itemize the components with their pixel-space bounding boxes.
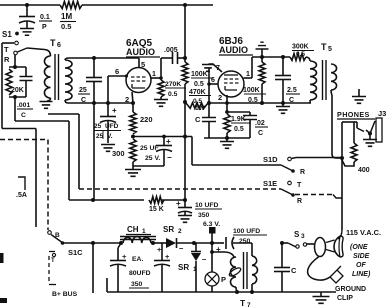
label T7 [240, 298, 251, 308]
jack J3 sleeve [342, 122, 364, 158]
label AUDIO (6BJ6) [219, 45, 253, 55]
wire cathode top bar [227, 111, 250, 113]
ground (pin7) [202, 65, 214, 72]
label 1.9K/0.5 [231, 116, 251, 133]
svg-text:270K: 270K [165, 81, 181, 88]
capacitor .02 C [243, 112, 257, 138]
label 25/C [78, 87, 90, 104]
wire AVC feed [48, 114, 79, 189]
svg-text:T: T [4, 45, 9, 54]
label 100K/0.5 (plate) [243, 87, 266, 104]
resistor 220 [130, 103, 136, 134]
label R (S1D) [300, 169, 305, 176]
svg-text:−: − [167, 153, 172, 162]
label 100UFD/250 [233, 228, 267, 245]
capacitor 25UF 25V (screen) [133, 137, 172, 167]
svg-text:.5A: .5A [16, 192, 27, 199]
transformer T5 secondary [331, 64, 337, 95]
svg-text:2: 2 [178, 228, 182, 235]
switch S1C arm [51, 235, 64, 245]
wire screen-rail to S1D [192, 137, 281, 166]
svg-text:T: T [297, 182, 302, 189]
svg-text:1W: 1W [195, 105, 206, 112]
svg-text:LINE): LINE) [352, 271, 371, 278]
label EA./80UFD/350 [129, 256, 151, 288]
wire B+ bus drop [92, 243, 94, 293]
label B+ BUS [52, 291, 78, 298]
resistor 270K 0.5 [158, 80, 164, 97]
label 0.1/P [39, 14, 52, 31]
svg-text:S: S [294, 230, 300, 239]
capacitor 25 C (grid) [86, 58, 102, 103]
node top-bus junction B [183, 3, 187, 7]
switch S1B arm [18, 48, 28, 52]
transformer T7 secondary [252, 243, 258, 292]
transformer T5 core [323, 60, 327, 100]
resistor 15K (inline) [149, 197, 164, 204]
label .001/C [17, 102, 33, 119]
label R (S1E) [297, 198, 302, 205]
transformer T7 core [244, 252, 248, 289]
switch S1C common [48, 231, 52, 235]
wire cathode bottom rail [204, 136, 250, 140]
wire S1C to B rail [63, 241, 122, 245]
label B (S1C) [55, 232, 60, 239]
svg-text:R: R [4, 55, 10, 64]
svg-text:2.5: 2.5 [287, 87, 297, 94]
label S1B [2, 30, 19, 39]
svg-text:+: + [112, 106, 117, 115]
svg-text:(ONE: (ONE [350, 244, 368, 251]
svg-text:S1C: S1C [68, 248, 83, 257]
mark left edge [0, 253, 7, 303]
plug body oval [315, 238, 326, 257]
svg-text:C: C [258, 130, 263, 137]
label CH1 [126, 225, 151, 235]
wire x94 main drop [93, 103, 95, 200]
label S1D [263, 155, 278, 164]
svg-text:T: T [321, 42, 327, 52]
svg-text:6: 6 [211, 77, 215, 84]
wire 20K bottom bar [9, 95, 26, 99]
capacitor 0.1 P [19, 5, 35, 28]
wire S1D T to jack [292, 158, 343, 159]
svg-text:100K: 100K [191, 71, 208, 78]
ground (270K) [154, 97, 168, 106]
terminal 6.3V [203, 221, 220, 234]
wire S1E out dashed [295, 195, 342, 199]
resistor 300K 0.5 (inline) [290, 54, 310, 61]
node line junction [280, 241, 284, 245]
svg-text:3: 3 [301, 233, 305, 240]
svg-text:B+ BUS: B+ BUS [52, 291, 78, 298]
ground (jack) [363, 134, 377, 146]
svg-text:PHONES: PHONES [337, 110, 370, 119]
switch S1B terminal T [4, 41, 18, 54]
switch S1D throw T [288, 157, 292, 161]
svg-text:25: 25 [94, 123, 102, 130]
capacitor C (grid) [195, 115, 216, 138]
svg-text:R: R [300, 169, 305, 176]
svg-text:.005: .005 [164, 47, 178, 54]
svg-text:+: + [166, 137, 171, 146]
label 2.5/C [286, 87, 300, 104]
switch S1B terminal R [4, 51, 17, 64]
svg-text:400: 400 [358, 167, 370, 174]
svg-text:AUDIO: AUDIO [126, 47, 155, 57]
node top-bus junction A [25, 3, 29, 7]
wire x185 lower [184, 102, 186, 200]
label S3 [294, 230, 305, 240]
label 400 [358, 167, 370, 174]
label SR1 [178, 263, 197, 273]
svg-text:+: + [176, 199, 181, 208]
wire PS bottom rail [107, 278, 336, 292]
plug prongs [326, 240, 335, 252]
node cathode rail A [131, 135, 166, 139]
wire S1B T feed [2, 42, 14, 44]
label PHONES J3 [337, 109, 386, 119]
capacitor 25UFD 25V [100, 103, 117, 143]
svg-text:C: C [21, 112, 26, 119]
tube 6BJ6 envelope [218, 71, 244, 97]
ground (inverted, plate line) [256, 42, 269, 57]
wire plate riser [160, 58, 162, 80]
pin 2 (6AQ5 cathode) [125, 92, 133, 104]
label S1C [68, 248, 83, 257]
label 25UF/25V [140, 145, 160, 162]
svg-text:SR: SR [178, 263, 189, 272]
wire pin6 drop [107, 76, 109, 103]
svg-text:OF: OF [356, 262, 366, 269]
svg-text:.02: .02 [255, 120, 265, 127]
svg-text:0.5: 0.5 [234, 126, 244, 133]
wire 6.3V drop [211, 234, 213, 273]
ground (chassis, bottom) [313, 292, 330, 303]
wire AVC dashed bus [79, 188, 281, 190]
svg-text:.001: .001 [17, 102, 30, 109]
label T5 [321, 42, 332, 53]
ground (6BJ6 cathode) [220, 138, 234, 148]
svg-text:20K: 20K [11, 87, 24, 94]
ground (25UFD) [101, 145, 115, 152]
label .005 [164, 47, 178, 54]
node S1D-T junction [340, 156, 344, 160]
wire T5 sec drop [332, 95, 342, 158]
capacitor 80UFD B [154, 243, 170, 292]
svg-text:1: 1 [152, 71, 156, 78]
wire S1B common to T6 [27, 48, 45, 50]
choke CH1 core [120, 237, 156, 240]
svg-text:C: C [291, 266, 297, 275]
svg-text:0.1: 0.1 [40, 14, 50, 21]
svg-text:100 UFD: 100 UFD [233, 228, 260, 235]
label 100K/0.5 (grid) [191, 71, 213, 88]
tube 6BJ6 plate bar [224, 74, 238, 76]
svg-text:300: 300 [112, 149, 125, 158]
tube 6AQ5 envelope [126, 68, 151, 93]
svg-text:−: − [202, 255, 207, 264]
svg-text:T: T [50, 38, 56, 48]
label 20K [11, 87, 24, 94]
wire B+ top bus [0, 4, 213, 6]
resistor 20K [6, 69, 12, 95]
pin 7 (6BJ6) [209, 64, 223, 72]
label S1E [263, 179, 277, 188]
plug cap 115VAC [334, 236, 343, 257]
svg-text:220: 220 [140, 115, 153, 124]
svg-text:+: + [122, 252, 127, 261]
pin 6 (6AQ5) [108, 67, 128, 78]
svg-text:25 V.: 25 V. [145, 155, 160, 162]
ground (10UFD) [178, 216, 192, 223]
ground (0.1P cap) [20, 29, 34, 36]
svg-text:+: + [165, 252, 170, 261]
wire R to 20K [14, 55, 16, 68]
tube 6AQ5 cathode [132, 84, 145, 88]
svg-text:350: 350 [198, 212, 210, 219]
label T6 [50, 38, 61, 49]
wire 20K top bar [9, 65, 26, 69]
svg-text:T: T [51, 258, 55, 264]
jack J3 plug body [376, 118, 382, 142]
svg-text:0.5: 0.5 [61, 22, 71, 31]
ground (300/25UF) [125, 167, 141, 176]
resistor 400 [342, 122, 357, 166]
svg-text:SR: SR [163, 225, 174, 234]
svg-text:CLIP: CLIP [337, 295, 353, 302]
wire B rail mid [151, 242, 166, 244]
svg-text:6: 6 [115, 67, 119, 76]
tube 6BJ6 grid dashes [224, 79, 239, 83]
wire screen rail [133, 135, 192, 139]
svg-text:80UFD: 80UFD [129, 270, 151, 277]
svg-text:7: 7 [216, 65, 220, 72]
svg-text:300K: 300K [292, 44, 309, 51]
svg-text:1: 1 [246, 71, 250, 78]
svg-text:350: 350 [131, 281, 143, 288]
svg-text:S1E: S1E [263, 179, 277, 188]
svg-text:T: T [240, 298, 246, 308]
svg-text:1M: 1M [61, 12, 72, 21]
wire B+ 15K line [69, 198, 187, 202]
svg-text:0.5: 0.5 [193, 98, 202, 105]
label .02/C [255, 120, 268, 137]
wire T-terminal left drop [2, 43, 36, 227]
wire dashed line feed [0, 140, 48, 231]
wire plate to top [252, 55, 290, 78]
transformer T6 secondary [65, 58, 72, 103]
svg-text:AUDIO: AUDIO [219, 45, 248, 55]
transformer T6 primary [44, 50, 50, 102]
svg-text:0.5: 0.5 [168, 91, 178, 98]
label 10UFD/350 [195, 202, 222, 219]
pin 5 (6AQ5 grid) [139, 58, 145, 69]
label 1M/0.5 [60, 12, 76, 31]
label 6BJ6 [219, 36, 243, 47]
label SR2 [163, 225, 182, 235]
ground clip symbol [330, 266, 343, 283]
wire T5 bottom rail [207, 101, 311, 105]
label 470K/0.5/1W [189, 89, 211, 112]
pilot lamp P [205, 272, 226, 292]
svg-text:250: 250 [239, 238, 251, 245]
svg-text:10 UFD: 10 UFD [195, 202, 219, 209]
switch S1E arm [281, 189, 295, 197]
svg-text:UFD: UFD [105, 123, 119, 130]
switch S1D arm [281, 165, 295, 173]
switch S3 [282, 243, 314, 248]
capacitor .001 C [20, 67, 33, 97]
wire line cord [308, 257, 330, 281]
svg-text:25: 25 [79, 87, 87, 94]
svg-text:S1: S1 [2, 30, 12, 39]
svg-text:C: C [195, 115, 201, 124]
label GROUND CLIP [335, 286, 366, 302]
wire S1C lower dashed [49, 256, 56, 285]
resistor 100K 0.5 (plate load) [259, 57, 265, 103]
resistor 1.9K 0.5 [224, 114, 230, 138]
label 15K [149, 206, 164, 213]
resistor 470K 0.5 1W [185, 102, 209, 108]
ground (floating, phones area) [352, 89, 366, 103]
label 300 [112, 149, 125, 158]
label 115 V.A.C. [346, 228, 381, 237]
resistor 100K 0.5 (6BJ6 grid) [182, 58, 188, 102]
svg-text:CH: CH [127, 225, 139, 234]
label AUDIO (6AQ5) [126, 47, 160, 57]
wire T6 sec bottom rail [68, 101, 135, 105]
svg-text:−: − [179, 244, 184, 253]
svg-text:5: 5 [328, 46, 332, 53]
capacitor .005 [161, 52, 185, 64]
svg-text:SIDE: SIDE [353, 253, 370, 260]
svg-text:115 V.A.C.: 115 V.A.C. [346, 228, 381, 237]
switch S1E throw T [288, 181, 302, 189]
wire 20K bottom to B+ feed [15, 97, 69, 200]
svg-text:V.: V. [107, 133, 113, 140]
capacitor 10UFD 350 [176, 199, 192, 215]
rectifier SR2 [157, 238, 184, 254]
node CH1 left [119, 241, 123, 245]
wire T6 sec top to grid [69, 56, 139, 60]
label 300K/0.5 [292, 44, 314, 59]
svg-text:0.5: 0.5 [296, 51, 305, 58]
svg-text:S1D: S1D [263, 155, 278, 164]
wire SR2 out [177, 241, 215, 245]
svg-text:R: R [297, 198, 302, 205]
label 6AQ5 [126, 38, 153, 49]
capacitor 80UFD A [110, 243, 127, 292]
rectifier SR1 [191, 243, 207, 292]
ground (2.5C rail) [276, 103, 290, 113]
pin 2 (6BJ6 cathode) [218, 93, 229, 114]
node CH1 right [151, 241, 155, 245]
node jack tip [368, 132, 372, 136]
label one-side-of-line [350, 244, 371, 278]
fuse .5A [18, 177, 25, 190]
wire grid return x209 [208, 68, 210, 117]
svg-text:J3: J3 [378, 109, 386, 118]
node heater junction [210, 250, 214, 254]
resistor 1M 0.5 (inline top bus) [60, 1, 82, 8]
svg-text:6: 6 [57, 42, 61, 49]
resistor 300 [130, 139, 136, 167]
transformer T6 core [55, 54, 59, 100]
svg-text:5: 5 [141, 60, 145, 69]
svg-text:C: C [81, 97, 86, 104]
pin 1 (6BJ6 plate) [244, 71, 253, 78]
svg-text:6.3 V.: 6.3 V. [203, 221, 220, 228]
tube 6AQ5 grid dashes [131, 77, 146, 81]
svg-text:100K: 100K [243, 87, 260, 94]
switch S1C lower throw [49, 252, 56, 265]
svg-text:P: P [221, 275, 226, 284]
svg-text:7: 7 [247, 302, 251, 308]
pin 6 (6BJ6 grid) [207, 77, 218, 86]
transformer T7 primary [212, 252, 242, 292]
label .5A [16, 192, 27, 199]
pin 1 (6AQ5 plate) [151, 71, 163, 80]
svg-text:EA.: EA. [132, 256, 143, 263]
transformer T5 primary [310, 61, 317, 103]
ground (T6 primary) [40, 102, 53, 109]
svg-text:2: 2 [218, 93, 222, 102]
label 270K/0.5 [165, 81, 186, 98]
wire S1D/S1E riser [338, 158, 342, 239]
capacitor C (line) [274, 243, 297, 292]
svg-text:25: 25 [96, 133, 104, 140]
svg-text:25 UF: 25 UF [140, 145, 159, 152]
wire .005 junction riser [183, 5, 187, 60]
node 470K left [183, 100, 187, 104]
node T7 sec bottom [250, 290, 254, 294]
jack J3 tip contact [366, 121, 375, 134]
choke CH1 winding [123, 237, 151, 243]
label 25UFD/25V [94, 123, 121, 140]
svg-text:P: P [42, 24, 47, 31]
label 220 [140, 115, 153, 124]
capacitor 2.5 C [275, 57, 291, 103]
svg-text:0.5: 0.5 [194, 81, 204, 88]
capacitor 100UFD 250 (inline) [212, 237, 252, 254]
svg-text:15 K: 15 K [149, 206, 164, 213]
svg-text:2: 2 [125, 95, 129, 104]
svg-text:GROUND: GROUND [335, 286, 366, 293]
tube 6BJ6 cathode [225, 86, 237, 90]
node T7 pri bottom [235, 290, 239, 294]
